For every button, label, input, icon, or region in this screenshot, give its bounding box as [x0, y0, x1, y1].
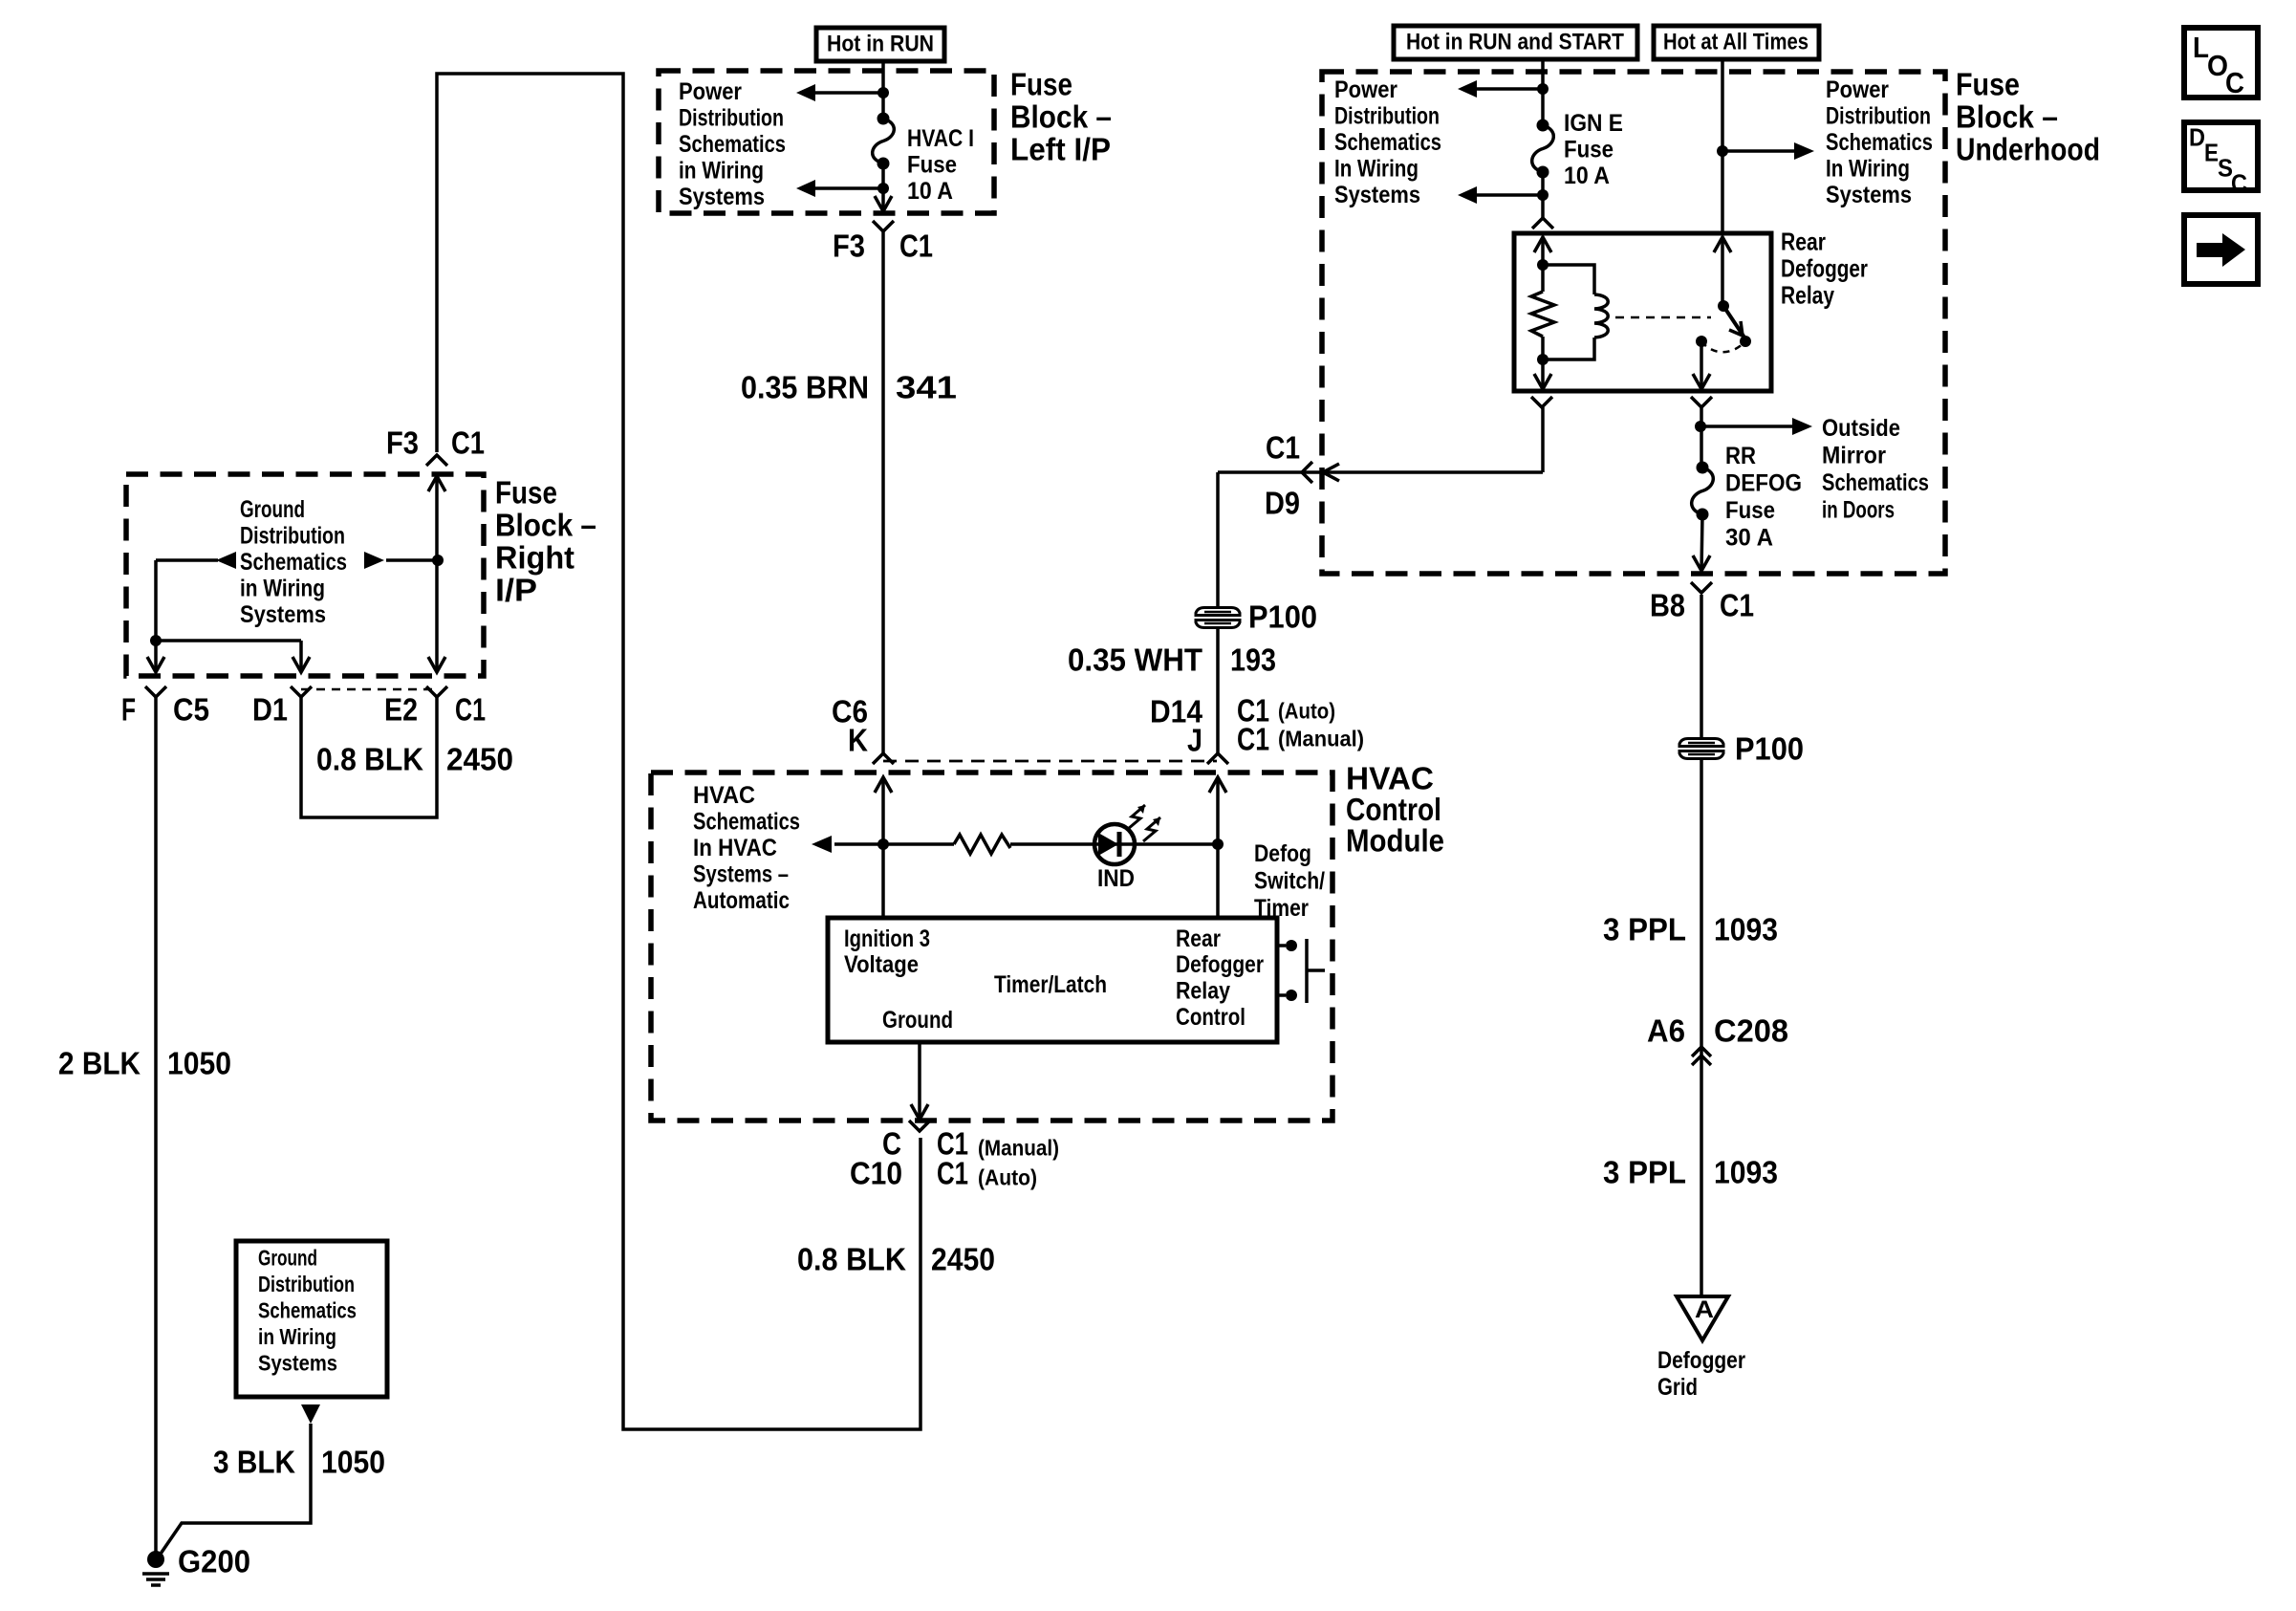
- svg-text:Systems: Systems: [1334, 182, 1420, 208]
- svg-text:Left I/P: Left I/P: [1010, 132, 1111, 167]
- svg-text:C10: C10: [850, 1156, 902, 1191]
- svg-text:Distribution: Distribution: [1334, 102, 1440, 129]
- svg-text:RR: RR: [1725, 443, 1756, 469]
- svg-text:1050: 1050: [167, 1046, 231, 1081]
- svg-text:IND: IND: [1097, 865, 1135, 892]
- svg-text:Relay: Relay: [1781, 281, 1834, 310]
- svg-text:Fuse: Fuse: [1564, 136, 1614, 163]
- svg-text:Distribution: Distribution: [1826, 102, 1931, 129]
- svg-text:Fuse: Fuse: [1725, 497, 1775, 524]
- svg-text:Ground: Ground: [882, 1007, 953, 1034]
- svg-text:0.35 BRN: 0.35 BRN: [741, 370, 869, 405]
- svg-text:Schematics: Schematics: [1334, 129, 1441, 156]
- svg-text:Control: Control: [1176, 1004, 1245, 1031]
- svg-text:3 BLK: 3 BLK: [213, 1445, 295, 1480]
- svg-text:Schematics: Schematics: [240, 549, 347, 576]
- svg-text:Systems: Systems: [679, 184, 765, 210]
- svg-text:HVAC: HVAC: [1346, 761, 1434, 796]
- svg-text:DEFOG: DEFOG: [1725, 470, 1802, 497]
- svg-text:Hot in RUN and START: Hot in RUN and START: [1406, 29, 1624, 54]
- svg-text:2 BLK: 2 BLK: [58, 1046, 141, 1081]
- svg-text:Schematics: Schematics: [1826, 129, 1933, 156]
- svg-text:I/P: I/P: [495, 573, 537, 608]
- svg-text:IGN E: IGN E: [1564, 110, 1623, 137]
- svg-text:Relay: Relay: [1176, 978, 1230, 1005]
- svg-text:G200: G200: [178, 1544, 250, 1579]
- svg-text:(Manual): (Manual): [1278, 727, 1364, 751]
- svg-text:Distribution: Distribution: [258, 1272, 355, 1296]
- svg-text:in Wiring: in Wiring: [679, 157, 764, 184]
- svg-text:P100: P100: [1735, 731, 1804, 767]
- svg-text:Systems: Systems: [258, 1351, 337, 1376]
- svg-text:Power: Power: [679, 78, 742, 105]
- svg-text:C1: C1: [899, 229, 933, 264]
- svg-text:Systems: Systems: [240, 601, 326, 628]
- svg-text:Hot at All Times: Hot at All Times: [1663, 29, 1809, 54]
- svg-text:Schematics: Schematics: [258, 1298, 357, 1323]
- svg-text:Underhood: Underhood: [1956, 132, 2100, 167]
- svg-text:Timer: Timer: [1254, 895, 1309, 922]
- svg-text:F3: F3: [833, 229, 865, 264]
- svg-text:(Auto): (Auto): [1278, 699, 1335, 724]
- svg-text:In HVAC: In HVAC: [693, 835, 777, 861]
- svg-text:Block –: Block –: [1956, 99, 2058, 135]
- svg-text:1093: 1093: [1714, 912, 1778, 947]
- svg-text:Voltage: Voltage: [844, 951, 919, 978]
- svg-text:In Wiring: In Wiring: [1334, 155, 1419, 182]
- svg-text:Control: Control: [1346, 792, 1441, 827]
- svg-text:D1: D1: [252, 692, 288, 728]
- svg-text:2450: 2450: [931, 1242, 995, 1277]
- svg-text:F3: F3: [386, 425, 419, 461]
- svg-text:C1: C1: [451, 425, 485, 461]
- svg-text:C: C: [2231, 169, 2247, 198]
- svg-text:0.35 WHT: 0.35 WHT: [1068, 642, 1202, 678]
- svg-text:J: J: [1187, 723, 1202, 758]
- svg-text:30 A: 30 A: [1725, 525, 1773, 552]
- svg-text:In Wiring: In Wiring: [1826, 155, 1910, 182]
- svg-text:D: D: [2189, 123, 2205, 152]
- svg-text:Power: Power: [1334, 76, 1397, 103]
- svg-text:Rear: Rear: [1781, 228, 1826, 256]
- svg-text:10 A: 10 A: [1564, 163, 1610, 189]
- svg-text:C1: C1: [1266, 430, 1300, 466]
- svg-text:C1: C1: [455, 692, 486, 728]
- svg-text:0.8 BLK: 0.8 BLK: [316, 742, 423, 777]
- svg-text:Switch/: Switch/: [1254, 868, 1325, 895]
- svg-text:in Doors: in Doors: [1822, 497, 1895, 524]
- svg-text:Outside: Outside: [1822, 415, 1900, 442]
- svg-text:F: F: [121, 692, 136, 728]
- svg-text:Defogger: Defogger: [1781, 254, 1868, 283]
- svg-text:C5: C5: [173, 692, 209, 728]
- svg-text:Schematics: Schematics: [1822, 469, 1929, 496]
- svg-text:Defog: Defog: [1254, 840, 1311, 867]
- svg-text:E2: E2: [384, 692, 418, 728]
- svg-text:Fuse: Fuse: [495, 475, 557, 511]
- svg-text:Defogger: Defogger: [1657, 1347, 1745, 1374]
- svg-text:1050: 1050: [321, 1445, 385, 1480]
- svg-text:(Auto): (Auto): [978, 1165, 1037, 1190]
- svg-text:Defogger: Defogger: [1176, 951, 1264, 978]
- svg-text:0.8 BLK: 0.8 BLK: [797, 1242, 906, 1277]
- svg-text:193: 193: [1230, 642, 1276, 678]
- svg-text:C1: C1: [937, 1156, 968, 1191]
- svg-text:C208: C208: [1714, 1013, 1788, 1049]
- svg-text:341: 341: [896, 370, 957, 405]
- svg-text:Schematics: Schematics: [693, 809, 800, 836]
- svg-text:HVAC: HVAC: [693, 782, 755, 809]
- svg-text:Block –: Block –: [495, 508, 596, 543]
- svg-text:Rear: Rear: [1176, 925, 1221, 952]
- svg-text:A: A: [1695, 1296, 1714, 1323]
- svg-text:3 PPL: 3 PPL: [1603, 1155, 1686, 1190]
- svg-text:Power: Power: [1826, 76, 1889, 103]
- svg-text:Grid: Grid: [1657, 1374, 1698, 1401]
- svg-text:Module: Module: [1346, 823, 1444, 859]
- svg-text:in Wiring: in Wiring: [240, 576, 325, 602]
- svg-text:P100: P100: [1248, 599, 1317, 635]
- svg-text:HVAC I: HVAC I: [907, 125, 974, 152]
- svg-text:Ground: Ground: [258, 1246, 317, 1271]
- svg-text:Fuse: Fuse: [1010, 67, 1072, 102]
- svg-text:2450: 2450: [446, 742, 513, 777]
- svg-text:Distribution: Distribution: [679, 104, 784, 131]
- svg-text:Mirror: Mirror: [1822, 442, 1886, 468]
- svg-text:Block –: Block –: [1010, 99, 1112, 135]
- svg-text:Systems: Systems: [1826, 182, 1912, 208]
- svg-text:Schematics: Schematics: [679, 131, 786, 158]
- svg-text:D9: D9: [1265, 486, 1300, 521]
- svg-text:Ignition 3: Ignition 3: [844, 925, 930, 952]
- svg-text:C: C: [2225, 66, 2244, 99]
- svg-text:Systems –: Systems –: [693, 861, 789, 888]
- svg-text:Timer/Latch: Timer/Latch: [994, 971, 1107, 998]
- svg-text:E: E: [2204, 139, 2219, 167]
- svg-text:K: K: [848, 723, 868, 758]
- svg-text:(Manual): (Manual): [978, 1136, 1059, 1161]
- svg-text:Fuse: Fuse: [1956, 67, 2020, 102]
- svg-text:C1: C1: [1720, 588, 1754, 623]
- svg-text:Right: Right: [495, 540, 574, 576]
- svg-text:3 PPL: 3 PPL: [1603, 912, 1686, 947]
- svg-text:B8: B8: [1650, 588, 1685, 623]
- svg-text:A6: A6: [1647, 1013, 1685, 1049]
- svg-text:in Wiring: in Wiring: [258, 1324, 336, 1349]
- svg-text:Automatic: Automatic: [693, 887, 790, 914]
- svg-text:Fuse: Fuse: [907, 151, 957, 178]
- svg-text:Hot in RUN: Hot in RUN: [827, 31, 934, 56]
- svg-text:C1: C1: [1237, 722, 1269, 757]
- svg-text:Distribution: Distribution: [240, 523, 345, 550]
- svg-text:1093: 1093: [1714, 1155, 1778, 1190]
- svg-text:10 A: 10 A: [907, 178, 953, 205]
- svg-text:Ground: Ground: [240, 496, 305, 523]
